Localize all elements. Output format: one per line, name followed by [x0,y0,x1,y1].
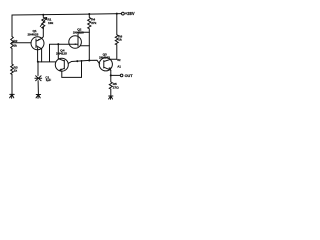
node gate wire / Q4 collector junction [57,43,59,45]
node mid wire junction [76,60,78,62]
resistor R3 (lower left zigzag) [11,64,14,74]
svg-text:OUT: OUT [125,74,134,78]
svg-text:1k: 1k [118,38,122,42]
svg-text:2N4125: 2N4125 [56,52,67,56]
resistor R6 on right column [115,14,118,60]
svg-text:+28V: +28V [125,11,135,16]
node loop-base junction [81,60,83,62]
wire cap column [37,62,39,95]
wire Q3 emitter down [110,70,112,75]
capacitor C1 [35,76,42,81]
wire Q2 drain [78,32,89,38]
resistor R2 (upper left zigzag) [11,37,14,50]
transistor Q1 [31,37,44,50]
svg-text:2N4025: 2N4025 [28,32,39,36]
wire Q1 base-bar extension down [37,48,39,62]
transistor Q4 [55,58,68,71]
ground (left) [10,94,15,98]
wire Q1 base [12,42,31,44]
svg-text:1μF: 1μF [46,78,52,82]
svg-text:10k: 10k [48,21,53,25]
resistor R1 variable, on column [42,15,45,29]
node rail-R6 junction [116,13,118,15]
svg-text:1k: 1k [13,43,17,47]
wire top rail [12,14,121,15]
wire R1 to Q1 emitter [42,27,44,39]
svg-text:62: 62 [117,58,121,62]
ground (cap) [36,95,41,99]
node rail-R1 junction [42,14,44,16]
svg-text:1k: 1k [14,69,18,73]
transistor Q2 (JFET) [69,36,82,49]
node OUT junction [110,74,112,76]
node base-collector junction [37,61,39,63]
ground (right) [109,96,113,99]
transistor Q3 [99,58,112,71]
svg-text:27k: 27k [91,21,96,25]
svg-text:2N4063: 2N4063 [99,55,110,59]
wire Q4 collector [58,44,64,61]
wire Q4 emitter loop [60,61,81,78]
wire Q2 source [80,45,89,47]
wire mid-left horizontal to gate riser [38,44,78,62]
node rail-R4 junction [88,13,90,15]
svg-text:A1: A1 [117,65,121,69]
terminal +28V [122,12,125,15]
svg-text:2N4220: 2N4220 [73,30,84,34]
wire to OUT terminal [111,74,120,76]
wire Q4 base to Q3 base [68,60,99,64]
resistor R4 on column [88,14,91,60]
node base tap [11,42,13,44]
svg-text:27Ω: 27Ω [113,85,119,89]
node mid wire / R4 column junction [88,59,90,61]
wire Q3 collector stub [111,58,117,60]
wire left input column [11,15,13,95]
wire Q1 collector down [41,49,43,62]
resistor R5 on emitter column [109,75,112,96]
terminal OUT [120,74,123,77]
